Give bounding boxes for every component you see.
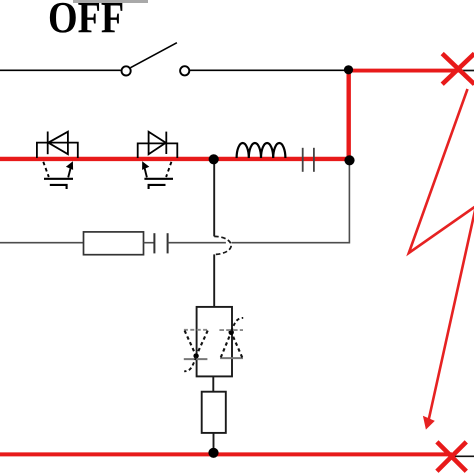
annotation: red zigzag arrow xyxy=(409,89,474,422)
node: junction bottom bus / arrester branch xyxy=(208,448,218,458)
wire hop (crossover, no connection) xyxy=(214,236,231,254)
resistor R2 (series, vertical) xyxy=(202,392,226,433)
node: junction top (switch bus / red path) xyxy=(344,65,353,74)
IGBT Q2 gate xyxy=(149,185,166,189)
diode D2 bar xyxy=(165,132,167,154)
wire: vertical branch to arrester, lower part xyxy=(213,254,215,307)
capacitor C2 (series) plates xyxy=(302,148,304,172)
IGBT Q1 emitter arrow xyxy=(68,167,71,178)
IGBT Q2 collector leg (dashed) xyxy=(166,162,171,177)
wire: top bus right segment xyxy=(190,69,347,71)
TVS symbol right apex junction xyxy=(229,330,234,335)
IGBT Q1 collector leg (dashed) xyxy=(43,162,49,177)
diode D1 bar xyxy=(47,132,49,155)
TVS symbol left apex junction xyxy=(193,353,198,358)
wire: thin black bus beyond bottom X xyxy=(452,455,474,457)
resistor R1 (snubber) xyxy=(84,232,144,255)
wire: red current path, main bus xyxy=(0,157,349,161)
TVS symbol left hook xyxy=(184,357,196,372)
TVS symbol left sides xyxy=(185,331,196,356)
diode D1 triangle xyxy=(48,132,68,155)
wire: red current path, vertical xyxy=(347,69,351,160)
node: junction A (red main bus / arrester branch) xyxy=(209,154,219,164)
switch S1 blade xyxy=(131,43,177,68)
TVS symbol left (downward) top edge xyxy=(184,329,209,331)
wire: arrester to resistor xyxy=(212,376,214,391)
stray gray mark top edge xyxy=(73,0,148,3)
wire: gray vertical link from node B down to RC branch xyxy=(232,165,350,243)
wire: RC branch left segment xyxy=(0,242,84,244)
switch S1 right terminal xyxy=(180,66,189,75)
wire: red bottom return bus xyxy=(0,452,452,456)
annotation: arrowhead xyxy=(423,416,435,430)
IGBT module Q1 bypass loop xyxy=(37,143,78,158)
wire: vertical branch to arrester, upper part xyxy=(213,159,215,236)
IGBT Q1 gate xyxy=(50,185,67,189)
annotation: red X bottom (breaking point) xyxy=(437,442,466,471)
TVS symbol right bar xyxy=(219,329,243,331)
TVS symbol left bar xyxy=(184,358,208,360)
surge arrester MOV box xyxy=(197,307,232,377)
capacitor C1 (snubber) xyxy=(153,233,155,253)
IGBT Q1 emitter bar xyxy=(44,178,73,180)
wire: red current path, top bus xyxy=(349,69,460,73)
wire: resistor to bottom bus xyxy=(213,433,215,453)
inductor L1 xyxy=(237,143,286,158)
IGBT Q2 emitter arrow xyxy=(144,167,147,178)
TVS symbol right (upward) base xyxy=(220,357,243,359)
label OFF xyxy=(48,0,124,43)
wire xyxy=(144,242,155,244)
switch S1 (ultrafast disconnector, open) left terminal xyxy=(122,66,131,75)
annotation: red X top (breaking point) xyxy=(442,54,474,85)
IGBT Q2 emitter bar xyxy=(144,178,173,180)
wire: thin black bus beyond top X xyxy=(458,70,474,72)
node: junction B (red path / commutation branch) xyxy=(344,155,354,165)
wire xyxy=(168,242,226,244)
TVS symbol right sides xyxy=(221,333,231,358)
IGBT module Q2 bypass loop xyxy=(138,143,178,158)
diode D2 triangle xyxy=(149,132,166,154)
TVS symbol right hook xyxy=(231,318,243,332)
wire: top bus left segment xyxy=(0,69,121,71)
